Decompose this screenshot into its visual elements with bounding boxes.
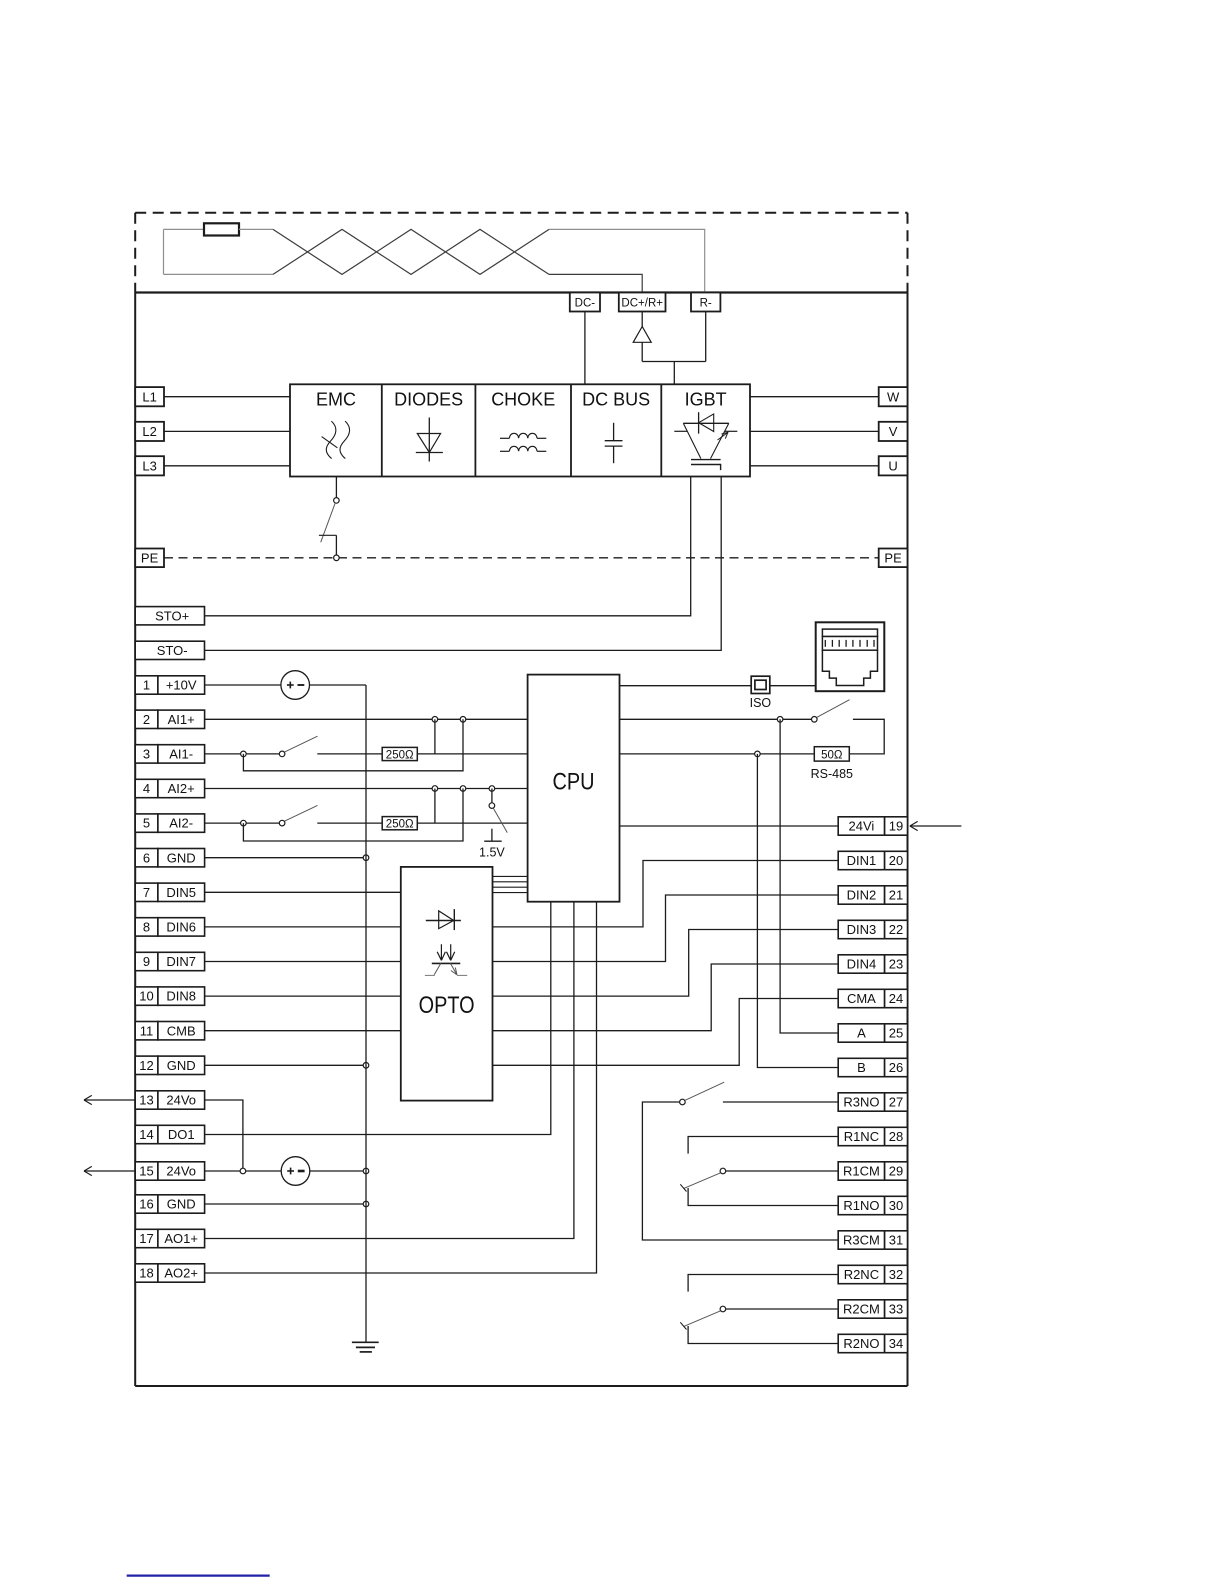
svg-text:21: 21	[889, 888, 903, 903]
CPU block	[528, 675, 620, 902]
wire junction to IGBT block	[673, 362, 675, 385]
optocoupler phototransistor icon	[425, 963, 467, 975]
junction AI1- bypass	[241, 751, 247, 757]
power supply symbol 24V	[281, 1157, 310, 1186]
terminal CMA 24 (right)	[838, 989, 907, 1007]
wire STO- to IGBT	[205, 477, 722, 651]
wire braking loop bottom	[164, 273, 274, 275]
terminal R1CM 29 (right)	[838, 1162, 907, 1180]
svg-text:DIN7: DIN7	[166, 954, 196, 969]
svg-text:DIN8: DIN8	[166, 989, 196, 1004]
svg-text:25: 25	[889, 1026, 903, 1041]
svg-text:GND: GND	[167, 1197, 196, 1212]
drive enclosure right border	[907, 293, 909, 1387]
wire DIN5 to OPTO	[205, 891, 401, 893]
junction AI2+ offset tap	[489, 786, 495, 792]
svg-text:R2NC: R2NC	[844, 1267, 879, 1282]
terminal W	[879, 387, 908, 406]
terminal 17 AO1+ (left)	[135, 1229, 204, 1247]
wire twisted pair strand B	[273, 229, 549, 274]
svg-text:AI1-: AI1-	[169, 747, 193, 762]
arrow 24Vo 15 external	[84, 1166, 135, 1175]
wire ribbon OPTO to CPU	[493, 876, 528, 892]
svg-text:19: 19	[889, 819, 903, 834]
RJ45 connector	[816, 622, 885, 691]
wire resistor to twisted pair	[239, 228, 273, 230]
svg-text:DIN5: DIN5	[166, 885, 196, 900]
svg-text:6: 6	[143, 850, 150, 865]
terminal STO+	[135, 607, 204, 625]
capacitor icon in DC BUS block	[605, 423, 623, 463]
svg-text:R-: R-	[700, 298, 712, 310]
choke inductor icon	[500, 433, 546, 451]
wire AI2- from terminal	[205, 822, 280, 824]
wire diode to junction	[641, 342, 643, 361]
footer rule	[127, 1574, 270, 1576]
svg-text:DIN3: DIN3	[847, 922, 877, 937]
terminal DIN4 23 (right)	[838, 955, 907, 973]
svg-text:24Vo: 24Vo	[166, 1164, 196, 1179]
wire STO+ to IGBT	[205, 477, 691, 616]
label IGBT	[685, 390, 727, 410]
power supply symbol +10V	[281, 671, 310, 700]
terminal A 25 (right)	[838, 1024, 907, 1042]
terminal 9 DIN7 (left)	[135, 952, 204, 970]
svg-text:L2: L2	[142, 424, 156, 439]
terminal 16 GND (left)	[135, 1195, 204, 1213]
wire OPTO out to DIN2	[493, 895, 839, 962]
wire twisted pair to R- terminal	[549, 229, 705, 292]
svg-text:28: 28	[889, 1129, 903, 1144]
relay R3 switch	[680, 1082, 725, 1105]
terminal 14 DO1 (left)	[135, 1125, 204, 1143]
svg-text:3: 3	[143, 747, 150, 762]
wire AO1+ to CPU	[205, 902, 574, 1239]
svg-text:CHOKE: CHOKE	[491, 390, 555, 410]
label DIODES	[394, 390, 463, 410]
drive enclosure left border	[134, 293, 136, 1387]
wire PE dashed rail	[164, 557, 879, 559]
wire +10V to supply	[205, 684, 281, 686]
junction B line	[755, 751, 761, 757]
svg-text:DIN6: DIN6	[166, 920, 196, 935]
battery 1.5V reference	[479, 829, 505, 860]
svg-text:AI2-: AI2-	[169, 816, 193, 831]
terminal L3	[135, 456, 164, 475]
relay R2 NC contact wire	[688, 1275, 838, 1292]
wire braking loop left vertical	[163, 229, 165, 274]
isolator ISO symbol	[750, 676, 772, 710]
svg-text:13: 13	[139, 1093, 153, 1108]
OPTO block	[401, 867, 493, 1101]
svg-text:14: 14	[139, 1127, 153, 1142]
svg-text:20: 20	[889, 853, 903, 868]
wire braking loop top to resistor	[164, 228, 205, 230]
terminal PE left	[135, 549, 164, 568]
terminal 11 CMB (left)	[135, 1022, 204, 1040]
svg-text:W: W	[887, 389, 900, 404]
wire DC- to DC BUS block	[584, 312, 586, 385]
wire IGBT to V	[750, 430, 879, 432]
wire OPTO out to DIN1	[493, 861, 839, 927]
junction AI1+ resistor tap	[432, 717, 438, 723]
svg-text:R1NO: R1NO	[843, 1198, 879, 1213]
terminal 18 AO2+ (left)	[135, 1264, 204, 1282]
junction AI2+ bypass tap	[460, 786, 466, 792]
svg-text:L3: L3	[142, 458, 156, 473]
svg-text:AI1+: AI1+	[168, 712, 195, 727]
terminal 3 AI1- (left)	[135, 745, 204, 763]
junction AI1+ bypass tap	[460, 717, 466, 723]
label EMC	[316, 390, 356, 410]
wire DC+ R- junction horizontal	[642, 361, 706, 363]
wire 24Vo 15 to supply symbol	[205, 1170, 282, 1172]
junction A line	[777, 717, 783, 723]
wire AI1 bypass loop	[243, 719, 463, 771]
terminal 7 DIN5 (left)	[135, 883, 204, 901]
switch RS-485 terminator	[812, 700, 850, 722]
svg-text:CMA: CMA	[847, 991, 876, 1006]
resistor braking (external)	[204, 223, 239, 235]
resistor 250 ohm AI1	[382, 747, 417, 761]
svg-text:DC-: DC-	[575, 298, 596, 310]
wire AI2+ to CPU	[205, 788, 528, 790]
terminal L2	[135, 422, 164, 441]
svg-text:U: U	[888, 458, 897, 473]
svg-text:CPU: CPU	[553, 769, 595, 796]
wire 250ohm AI1 to CPU	[417, 753, 527, 755]
relay R1 switch	[680, 1168, 725, 1191]
svg-text:29: 29	[889, 1164, 903, 1179]
wire CMB to OPTO	[205, 1030, 401, 1032]
svg-text:R2NO: R2NO	[843, 1336, 879, 1351]
svg-text:STO-: STO-	[157, 643, 188, 658]
svg-text:5: 5	[143, 816, 150, 831]
terminal U	[879, 456, 908, 475]
svg-text:DC BUS: DC BUS	[582, 390, 650, 410]
relay R3 common wire	[642, 1102, 838, 1240]
terminal L1	[135, 387, 164, 406]
wire DC+/R+ down to diode	[641, 312, 643, 327]
relay R2 switch	[680, 1306, 725, 1329]
svg-text:ISO: ISO	[750, 696, 772, 710]
svg-text:R1NC: R1NC	[844, 1129, 879, 1144]
diode symbol on DC+ feed	[633, 327, 651, 343]
DC bus rail line	[135, 291, 907, 293]
svg-text:250Ω: 250Ω	[386, 749, 414, 761]
wire 250ohm AI2 to CPU	[417, 822, 527, 824]
svg-text:R3CM: R3CM	[843, 1233, 880, 1248]
wire AI1- switch to resistor	[317, 753, 382, 755]
terminal 24Vi 19 (right)	[838, 817, 907, 835]
wire IGBT to W	[750, 396, 879, 398]
svg-text:A: A	[857, 1026, 866, 1041]
terminal STO-	[135, 641, 204, 659]
wire DO1 to CPU	[205, 902, 551, 1135]
optocoupler light arrows	[437, 944, 455, 960]
relay R2 NO contact wire	[688, 1326, 838, 1344]
svg-text:11: 11	[140, 1023, 154, 1038]
terminal DIN3 22 (right)	[838, 920, 907, 938]
wire OPTO out to DIN3	[493, 930, 839, 997]
svg-text:7: 7	[143, 885, 150, 900]
svg-text:V: V	[889, 424, 898, 439]
switch AI1- current mode	[279, 736, 317, 757]
terminal R2NO 34 (right)	[838, 1334, 907, 1352]
svg-text:RS-485: RS-485	[811, 767, 853, 781]
junction GND 16 on bus	[363, 1201, 369, 1207]
wire ISO to RJ45	[770, 685, 816, 687]
wire CPU to 24Vi	[620, 825, 839, 827]
terminal 2 AI1+ (left)	[135, 710, 204, 728]
wire GND 12 to bus	[205, 1064, 366, 1066]
dashed enclosure right border	[907, 213, 909, 293]
wire R- down to junction	[705, 312, 707, 362]
svg-text:AO1+: AO1+	[164, 1231, 198, 1246]
junction AI2- bypass	[241, 820, 247, 826]
arrow 24Vi external input	[910, 821, 962, 830]
terminal R3CM 31 (right)	[838, 1231, 907, 1249]
svg-text:22: 22	[889, 922, 903, 937]
resistor 50 ohm terminator	[814, 747, 849, 762]
label CHOKE	[491, 390, 555, 410]
svg-text:24Vo: 24Vo	[166, 1093, 196, 1108]
wire L2 to EMC	[164, 430, 290, 432]
terminal 8 DIN6 (left)	[135, 918, 204, 936]
svg-text:8: 8	[143, 920, 150, 935]
svg-text:24: 24	[889, 991, 903, 1006]
wire L3 to EMC	[164, 465, 290, 467]
svg-text:26: 26	[889, 1060, 903, 1075]
svg-text:10: 10	[139, 989, 153, 1004]
terminal B 26 (right)	[838, 1058, 907, 1076]
terminal 5 AI2- (left)	[135, 814, 204, 832]
svg-text:18: 18	[139, 1266, 153, 1281]
wire A riser to terminal 25	[780, 719, 838, 1033]
IGBT transistor icon	[674, 412, 737, 470]
wire DIN8 to OPTO	[205, 995, 401, 997]
terminal R-	[691, 293, 720, 312]
svg-text:31: 31	[889, 1233, 903, 1248]
svg-text:OPTO: OPTO	[419, 992, 475, 1019]
junction 24Vo 13-15	[240, 1168, 246, 1174]
diode icon in DIODES block	[416, 418, 443, 462]
svg-text:16: 16	[139, 1197, 153, 1212]
wire AI1- from terminal	[205, 753, 280, 755]
svg-text:17: 17	[139, 1231, 153, 1246]
relay R2 common wire	[726, 1308, 839, 1310]
junction GND 6 on bus	[363, 855, 369, 861]
wire terminator switch loop	[849, 719, 884, 754]
svg-text:12: 12	[139, 1058, 153, 1073]
svg-text:15: 15	[139, 1164, 153, 1179]
svg-text:DC+/R+: DC+/R+	[621, 298, 663, 310]
terminal 15 24Vo (left)	[135, 1162, 204, 1180]
wire AI1 resistor tap vertical	[434, 719, 436, 754]
drive enclosure bottom border	[135, 1385, 907, 1387]
relay R1 common wire	[726, 1170, 839, 1172]
wire CPU RS-485 A line	[620, 718, 813, 720]
wire AI2 resistor tap vertical	[434, 789, 436, 824]
dashed enclosure left border	[134, 213, 136, 293]
label DC BUS	[582, 390, 650, 410]
svg-text:AI2+: AI2+	[168, 781, 195, 796]
terminal DIN2 21 (right)	[838, 886, 907, 904]
terminal R1NO 30 (right)	[838, 1196, 907, 1214]
switch EMC screen to PE	[319, 477, 339, 561]
svg-text:250Ω: 250Ω	[386, 819, 414, 831]
svg-text:1.5V: 1.5V	[479, 846, 505, 860]
svg-text:AO2+: AO2+	[164, 1266, 198, 1281]
resistor 250 ohm AI2	[382, 817, 417, 831]
wire OPTO out to DIN4	[493, 964, 839, 1031]
junction AI2+ resistor tap	[432, 786, 438, 792]
wire AI1+ to CPU	[205, 718, 528, 720]
terminal 6 GND (left)	[135, 849, 204, 867]
junction 24V on bus	[363, 1168, 369, 1174]
dashed enclosure top border	[135, 212, 907, 214]
wire GND 6 to bus	[205, 857, 366, 859]
wire AO2+ to CPU	[205, 902, 597, 1273]
optocoupler LED icon	[426, 909, 461, 930]
power block row EMC DIODES CHOKE DC BUS IGBT	[290, 384, 750, 476]
EMC filter icon	[322, 421, 350, 459]
svg-text:30: 30	[889, 1198, 903, 1213]
svg-text:DIN4: DIN4	[847, 957, 877, 972]
wire OPTO out to CMA	[493, 999, 839, 1066]
svg-text:CMB: CMB	[167, 1023, 196, 1038]
label RS-485	[811, 767, 853, 781]
svg-text:33: 33	[889, 1302, 903, 1317]
terminal PE right	[879, 549, 908, 568]
wire AI2- switch to resistor	[317, 822, 382, 824]
svg-text:R3NO: R3NO	[843, 1095, 879, 1110]
svg-text:PE: PE	[141, 550, 159, 565]
terminal R2NC 32 (right)	[838, 1265, 907, 1283]
switch 1.5V offset	[489, 789, 507, 833]
svg-text:27: 27	[889, 1095, 903, 1110]
svg-text:2: 2	[143, 712, 150, 727]
svg-text:32: 32	[889, 1267, 903, 1282]
wire CPU RS-485 B line	[620, 753, 815, 755]
terminal 1 +10V (left)	[135, 676, 204, 694]
svg-text:4: 4	[143, 781, 150, 796]
switch AI2- current mode	[279, 805, 317, 825]
arrow 24Vo 13 external	[84, 1095, 135, 1104]
terminal 10 DIN8 (left)	[135, 987, 204, 1005]
svg-text:50Ω: 50Ω	[821, 749, 843, 761]
wire GND 16 to bus	[205, 1203, 366, 1205]
svg-text:R1CM: R1CM	[843, 1164, 880, 1179]
wire twisted pair to DC+/R+ terminal	[549, 274, 642, 292]
svg-text:24Vi: 24Vi	[849, 819, 875, 834]
svg-text:IGBT: IGBT	[685, 390, 727, 410]
wire supply to GND bus	[310, 684, 367, 686]
terminal R1NC 28 (right)	[838, 1127, 907, 1145]
terminal DC-	[570, 293, 600, 312]
terminal 13 24Vo (left)	[135, 1091, 204, 1109]
relay R3 NO contact wire	[723, 1101, 838, 1103]
wire CPU to ISO	[620, 685, 752, 687]
svg-text:GND: GND	[167, 1058, 196, 1073]
relay R1 NO contact wire	[688, 1188, 838, 1206]
svg-text:PE: PE	[884, 550, 902, 565]
svg-text:DIN1: DIN1	[847, 853, 877, 868]
wire DIN7 to OPTO	[205, 961, 401, 963]
svg-text:23: 23	[889, 957, 903, 972]
svg-text:9: 9	[143, 954, 150, 969]
wire internal GND bus	[365, 685, 367, 1342]
ground symbol	[352, 1342, 379, 1352]
wire 24Vo 13 to supply	[205, 1100, 243, 1171]
svg-text:L1: L1	[142, 389, 156, 404]
svg-text:34: 34	[889, 1336, 903, 1351]
svg-text:DIODES: DIODES	[394, 390, 463, 410]
wire AI2 bypass loop	[243, 789, 463, 842]
svg-text:DO1: DO1	[168, 1127, 195, 1142]
wire twisted pair strand A	[273, 229, 549, 274]
svg-text:+10V: +10V	[166, 678, 197, 693]
wire DIN6 to OPTO	[205, 926, 401, 928]
terminal V	[879, 422, 908, 441]
terminal R3NO 27 (right)	[838, 1093, 907, 1111]
svg-text:1: 1	[143, 678, 150, 693]
wire L1 to EMC	[164, 396, 290, 398]
relay R1 NC contact wire	[688, 1137, 838, 1154]
svg-text:DIN2: DIN2	[847, 888, 877, 903]
terminal 4 AI2+ (left)	[135, 779, 204, 797]
svg-text:B: B	[857, 1060, 866, 1075]
terminal DIN1 20 (right)	[838, 851, 907, 869]
terminal 12 GND (left)	[135, 1056, 204, 1074]
terminal R2CM 33 (right)	[838, 1300, 907, 1318]
junction GND 12 on bus	[363, 1063, 369, 1069]
wire 24V supply to bus	[310, 1170, 366, 1172]
wire B riser to terminal 26	[757, 754, 838, 1068]
svg-text:STO+: STO+	[155, 608, 189, 623]
svg-text:EMC: EMC	[316, 390, 356, 410]
svg-text:R2CM: R2CM	[843, 1302, 880, 1317]
wire IGBT to U	[750, 465, 879, 467]
svg-text:GND: GND	[167, 850, 196, 865]
terminal DC+/R+	[619, 293, 666, 312]
